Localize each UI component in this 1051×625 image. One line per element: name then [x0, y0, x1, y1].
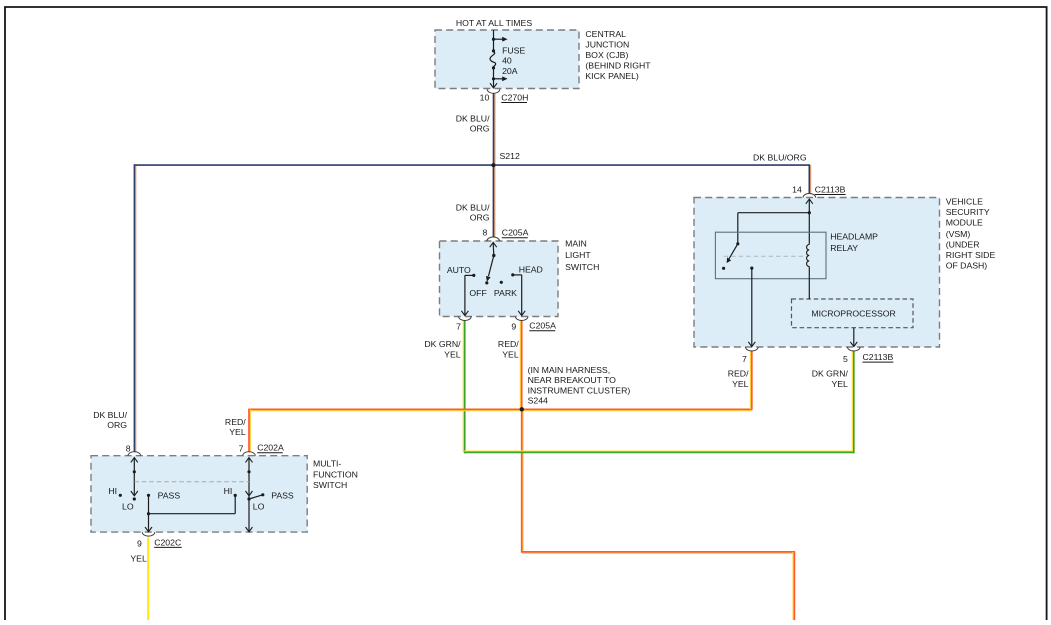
svg-text:NEAR BREAKOUT TO: NEAR BREAKOUT TO [528, 375, 617, 385]
svg-text:9: 9 [137, 538, 142, 548]
svg-text:7: 7 [742, 354, 747, 364]
svg-text:OF DASH): OF DASH) [946, 261, 988, 271]
svg-text:S244: S244 [528, 396, 548, 406]
svg-text:C202A: C202A [257, 443, 284, 453]
svg-text:5: 5 [843, 354, 848, 364]
svg-text:CENTRAL: CENTRAL [585, 29, 626, 39]
svg-text:JUNCTION: JUNCTION [585, 40, 629, 50]
svg-text:ORG: ORG [107, 420, 127, 430]
svg-text:MULTI-: MULTI- [313, 458, 341, 468]
svg-text:RED/: RED/ [498, 339, 519, 349]
svg-text:HEADLAMP: HEADLAMP [830, 232, 878, 242]
svg-text:LO: LO [122, 501, 134, 511]
svg-text:8: 8 [482, 228, 487, 238]
svg-text:10: 10 [480, 92, 490, 102]
svg-text:C202C: C202C [154, 537, 181, 547]
svg-text:PASS: PASS [271, 490, 294, 500]
svg-text:9: 9 [511, 321, 516, 331]
svg-text:MODULE: MODULE [946, 218, 983, 228]
svg-text:PARK: PARK [494, 288, 517, 298]
svg-text:DK BLU/ORG: DK BLU/ORG [753, 153, 807, 163]
svg-text:DK BLU/: DK BLU/ [456, 114, 490, 124]
svg-text:20A: 20A [502, 66, 518, 76]
svg-text:FUSE: FUSE [502, 46, 525, 56]
svg-text:SWITCH: SWITCH [565, 262, 599, 272]
svg-text:C270H: C270H [501, 92, 528, 102]
svg-text:DK BLU/: DK BLU/ [456, 202, 490, 212]
svg-text:INSTRUMENT CLUSTER): INSTRUMENT CLUSTER) [528, 385, 631, 395]
svg-text:C2113B: C2113B [863, 352, 894, 362]
svg-text:OFF: OFF [469, 288, 486, 298]
svg-text:ORG: ORG [470, 213, 490, 223]
svg-text:KICK PANEL): KICK PANEL) [585, 71, 639, 81]
svg-text:MAIN: MAIN [565, 238, 587, 248]
svg-text:S212: S212 [500, 151, 520, 161]
svg-text:8: 8 [126, 443, 131, 453]
svg-text:HI: HI [224, 486, 233, 496]
svg-text:FUNCTION: FUNCTION [313, 469, 358, 479]
svg-text:YEL: YEL [502, 349, 519, 359]
svg-text:HEAD: HEAD [519, 265, 543, 275]
svg-text:7: 7 [456, 321, 461, 331]
svg-text:VEHICLE: VEHICLE [946, 197, 983, 207]
svg-text:RED/: RED/ [225, 417, 246, 427]
svg-text:SECURITY: SECURITY [946, 207, 990, 217]
svg-text:YEL: YEL [732, 379, 749, 389]
svg-text:C2113B: C2113B [815, 184, 846, 194]
svg-text:C205A: C205A [502, 228, 529, 238]
svg-text:RED/: RED/ [728, 369, 749, 379]
svg-text:MICROPROCESSOR: MICROPROCESSOR [811, 308, 895, 318]
svg-text:SWITCH: SWITCH [313, 480, 347, 490]
svg-text:(IN MAIN HARNESS,: (IN MAIN HARNESS, [528, 365, 611, 375]
svg-text:PASS: PASS [158, 490, 181, 500]
svg-text:YEL: YEL [831, 379, 848, 389]
svg-text:DK GRN/: DK GRN/ [424, 339, 461, 349]
svg-text:C205A: C205A [529, 321, 556, 331]
svg-text:RELAY: RELAY [830, 243, 858, 253]
svg-text:HI: HI [108, 486, 117, 496]
svg-text:AUTO: AUTO [447, 265, 471, 275]
svg-text:(UNDER: (UNDER [946, 240, 980, 250]
svg-text:YEL: YEL [444, 349, 461, 359]
svg-text:HOT AT ALL TIMES: HOT AT ALL TIMES [456, 18, 532, 28]
svg-text:(VSM): (VSM) [946, 229, 971, 239]
svg-text:7: 7 [239, 443, 244, 453]
svg-text:DK BLU/: DK BLU/ [93, 410, 127, 420]
svg-text:YEL: YEL [130, 553, 147, 563]
svg-text:YEL: YEL [229, 427, 246, 437]
svg-text:ORG: ORG [470, 124, 490, 134]
svg-text:40: 40 [502, 56, 512, 66]
svg-text:BOX (CJB): BOX (CJB) [585, 50, 628, 60]
svg-text:LIGHT: LIGHT [565, 250, 591, 260]
svg-text:RIGHT SIDE: RIGHT SIDE [946, 250, 996, 260]
svg-text:LO: LO [253, 501, 265, 511]
svg-text:(BEHIND RIGHT: (BEHIND RIGHT [585, 61, 651, 71]
svg-text:DK GRN/: DK GRN/ [812, 369, 849, 379]
svg-text:14: 14 [792, 184, 802, 194]
